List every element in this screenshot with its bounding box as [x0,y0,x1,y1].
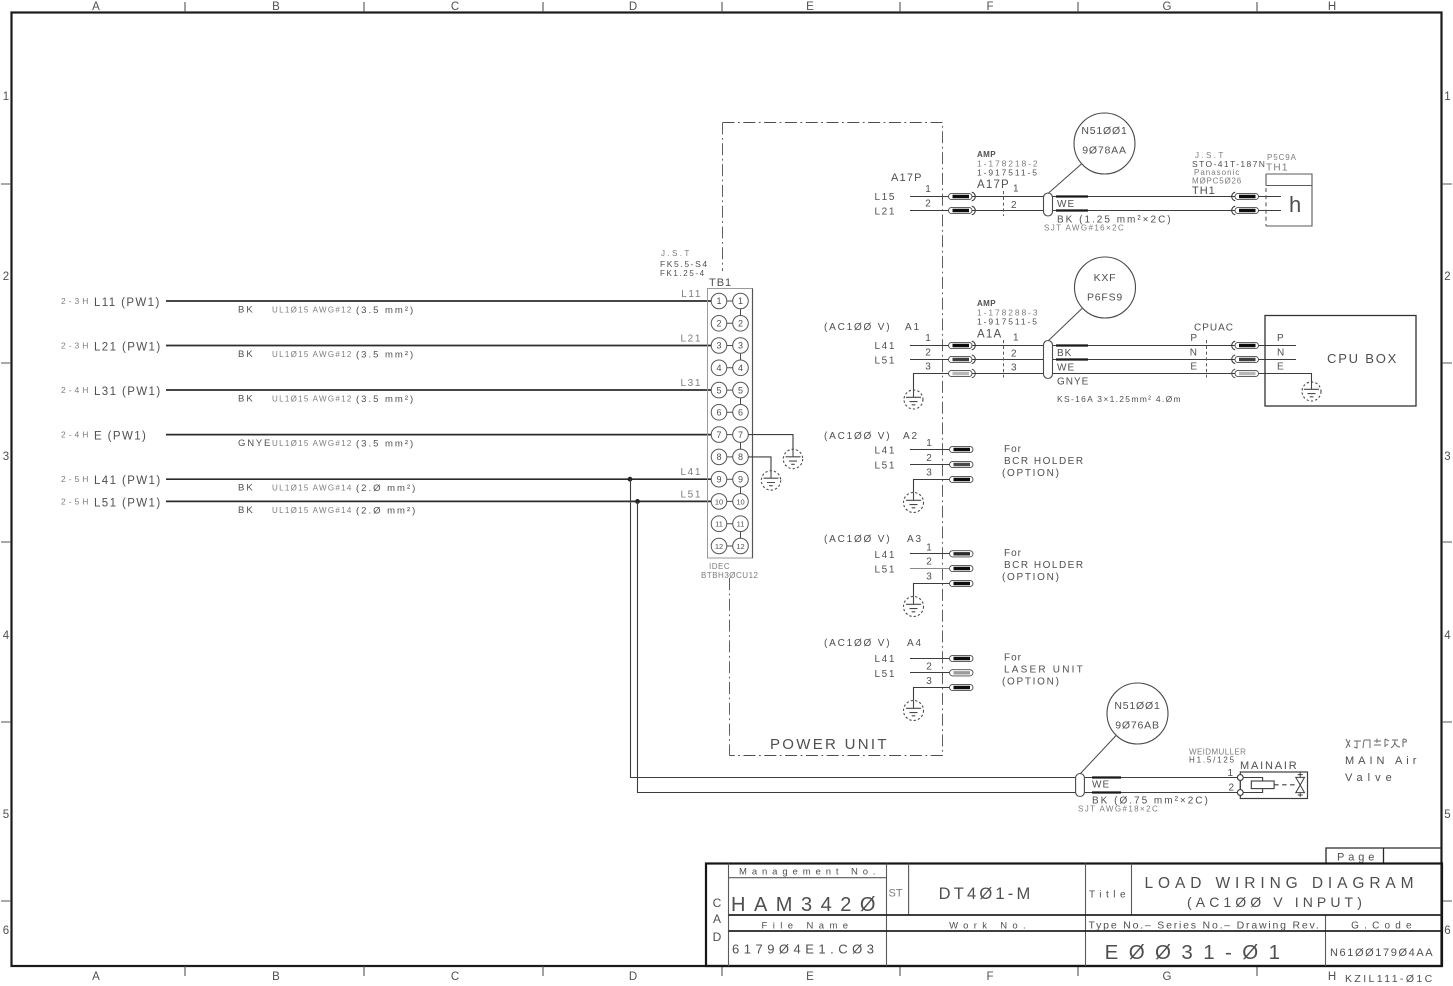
TB1 terminal link wires [727,301,741,546]
svg-text:9Ø76AB: 9Ø76AB [1115,720,1160,732]
svg-text:L41: L41 [875,654,897,665]
valve symbol [1296,772,1305,797]
svg-text:TH1: TH1 [1192,185,1216,197]
svg-text:D: D [629,1,637,13]
svg-text:6: 6 [738,408,743,418]
contact pin CPUAC-N [1232,355,1235,364]
svg-text:6: 6 [3,925,9,937]
svg-text:1: 1 [926,542,932,553]
svg-text:BCR HOLDER: BCR HOLDER [1004,456,1085,467]
junction node on L51 [635,499,640,504]
svg-text:(OPTION): (OPTION) [1002,468,1061,479]
conductor emphasis BK bottom [1092,791,1121,793]
wire L51 [910,464,950,466]
wire L11 feed [166,300,711,302]
cable jacket boundary CPU side [1206,340,1208,378]
svg-text:10: 10 [736,497,744,506]
svg-text:HAM342Ø: HAM342Ø [731,894,884,916]
contact pin A3-3 [950,580,974,586]
svg-text:Management No.: Management No. [739,867,880,878]
svg-text:(2.Ø mm²): (2.Ø mm²) [356,505,417,516]
svg-text:BK: BK [238,349,255,360]
svg-text:L41: L41 [875,446,897,457]
TB1 pin numbers [716,296,743,484]
svg-text:P: P [1277,333,1284,344]
svg-text:8: 8 [738,452,743,462]
conductor emphasis WE [1056,195,1088,197]
svg-text:UL1Ø15 AWG#12: UL1Ø15 AWG#12 [272,439,353,448]
svg-text:L11 (PW1): L11 (PW1) [94,297,161,309]
conductor emphasis BK [1056,344,1088,346]
contact pin CPUAC-E [1232,369,1235,378]
svg-text:H1.5/125: H1.5/125 [1189,756,1236,765]
svg-text:C: C [713,896,722,910]
svg-text:2: 2 [925,347,931,358]
contact pin A3-2 [950,565,974,571]
svg-text:(2.Ø mm²): (2.Ø mm²) [356,483,417,494]
svg-text:5: 5 [3,809,9,821]
svg-text:L41 (PW1): L41 (PW1) [94,475,162,487]
svg-text:3: 3 [716,341,721,351]
svg-text:3: 3 [925,362,931,373]
cable marker oval [1044,193,1053,216]
ground symbol A1 [904,390,923,409]
wire BK to TH1 [972,210,1235,212]
wire L41 [910,658,950,660]
connector A1 group [824,257,1416,409]
svg-text:UL1Ø15 AWG#12: UL1Ø15 AWG#12 [272,395,353,404]
svg-text:L51: L51 [875,460,897,471]
wire BK to CPU [972,345,1235,347]
svg-text:N61ØØ179Ø4AA: N61ØØ179Ø4AA [1330,947,1434,959]
cable jacket boundary [1003,340,1005,378]
svg-text:7: 7 [716,430,721,440]
svg-text:L21 (PW1): L21 (PW1) [94,342,162,354]
svg-text:(OPTION): (OPTION) [1002,572,1061,583]
svg-text:LASER UNIT: LASER UNIT [1004,665,1085,676]
svg-text:TH1: TH1 [1266,163,1289,174]
wire E into CPU BOX [1259,374,1312,383]
Japanese note main air valve [1346,739,1406,749]
svg-text:L31 (PW1): L31 (PW1) [94,386,162,398]
svg-text:L51: L51 [875,669,897,680]
svg-text:2-5H: 2-5H [61,474,91,484]
svg-text:(3.5 mm²): (3.5 mm²) [356,305,415,316]
svg-text:12: 12 [736,542,744,551]
contact pin A17P-1 [949,193,973,199]
svg-text:3: 3 [3,451,9,463]
svg-text:2-4H: 2-4H [61,430,91,440]
svg-text:(3.5 mm²): (3.5 mm²) [356,394,415,405]
svg-text:BK: BK [238,394,255,405]
ground symbol in CPU BOX [1302,382,1321,401]
svg-text:L41: L41 [875,550,897,561]
svg-text:E: E [806,971,814,983]
svg-text:Valve: Valve [1345,772,1397,784]
svg-text:1: 1 [925,184,931,195]
svg-text:Title: Title [1089,890,1130,901]
svg-text:12: 12 [715,542,723,551]
wire L41 branch to MAIN AIR [631,479,1238,777]
main air valve MAINAIR body [1240,772,1307,799]
wire L21 [910,210,949,212]
wire pin3 from ground [914,688,951,701]
svg-text:2: 2 [926,661,932,672]
terminal link [1239,780,1241,789]
CPU BOX [1265,316,1416,407]
svg-text:1-917511-5: 1-917511-5 [977,317,1039,327]
contact pin A3-1 [950,551,974,557]
svg-text:A: A [92,971,100,983]
svg-text:E: E [806,1,814,13]
leader line to balloon KXF [1048,309,1082,342]
wire L21 feed [166,345,711,347]
svg-text:P6FS9: P6FS9 [1087,292,1123,304]
contact pin A4-2 [950,670,974,676]
svg-text:L41: L41 [875,341,897,352]
svg-text:FK1.25-4: FK1.25-4 [660,269,706,278]
svg-text:(AC1ØØ V)A2: (AC1ØØ V)A2 [824,431,919,442]
svg-text:L31: L31 [681,378,703,389]
svg-text:IDEC: IDEC [709,562,730,571]
svg-text:2: 2 [1011,200,1017,211]
svg-text:A17P: A17P [977,179,1010,191]
svg-text:KZIL111-Ø1C: KZIL111-Ø1C [1345,973,1435,985]
svg-text:B: B [272,1,280,13]
Page box [1326,848,1442,864]
svg-text:DT4Ø1-M: DT4Ø1-M [939,885,1034,903]
svg-text:KS-16A 3×1.25mm² 4.Øm: KS-16A 3×1.25mm² 4.Øm [1057,394,1182,404]
svg-text:POWER UNIT: POWER UNIT [770,736,889,753]
wire L51 [910,568,950,570]
balloon N51001 9076AB [1107,683,1168,744]
contact pin CPUAC-P [1232,341,1235,350]
wire TB1 pin7 to ground [748,435,793,450]
svg-text:3: 3 [1011,363,1017,374]
svg-text:(AC1ØØ V)A3: (AC1ØØ V)A3 [824,534,923,545]
svg-text:1: 1 [926,438,932,449]
terminal MAINAIR-2 [1237,790,1243,796]
terminal block TB1 [660,249,759,580]
contact pin A4-3 [950,684,974,690]
svg-text:L51: L51 [875,355,897,366]
wire pin3 from ground [914,374,950,391]
svg-text:4: 4 [716,363,721,373]
svg-text:UL1Ø15 AWG#12: UL1Ø15 AWG#12 [272,306,353,315]
svg-text:11: 11 [737,520,745,529]
svg-text:ST: ST [889,888,903,900]
TB1 terminal circles rows 1-12 [711,293,748,554]
svg-text:6179Ø4E1.CØ3: 6179Ø4E1.CØ3 [732,942,879,957]
svg-text:9Ø78AA: 9Ø78AA [1082,145,1127,157]
terminal MAINAIR-1 [1237,775,1243,781]
svg-text:LOAD WIRING DIAGRAM: LOAD WIRING DIAGRAM [1145,875,1419,892]
contact pin A1A-1 [949,342,973,348]
thermostat TH1 body [1266,174,1312,226]
wire E feed [166,434,711,436]
contact pin A2-3 [950,476,974,482]
svg-text:CPU BOX: CPU BOX [1327,351,1398,366]
svg-text:L11: L11 [681,289,702,300]
wire pin3 from ground [914,480,951,493]
svg-text:G: G [1163,971,1172,983]
svg-text:1: 1 [716,296,721,306]
svg-text:1: 1 [1013,333,1019,344]
svg-text:Page: Page [1337,852,1378,864]
leader line to balloon 9076AB [1080,735,1117,775]
svg-text:MAIN Air: MAIN Air [1345,755,1420,767]
contact pin TH1-1 [1232,192,1235,201]
wire P into CPU BOX [1259,345,1297,347]
svg-text:2: 2 [925,199,931,210]
svg-text:(OPTION): (OPTION) [1002,677,1061,688]
contact pin A2-2 [950,461,974,467]
wire GNYE to CPU [972,373,1235,375]
cable marker oval [1044,341,1053,379]
ground symbol at TB1 pin7 [783,449,802,468]
svg-text:Work No.: Work No. [949,921,1031,932]
svg-text:9: 9 [738,474,743,484]
connector A17P group [875,113,1313,233]
svg-text:For: For [1004,548,1022,559]
svg-text:L51: L51 [875,565,897,576]
svg-text:4: 4 [1444,630,1451,642]
svg-text:SJT AWG#18×2C: SJT AWG#18×2C [1078,805,1159,814]
wire L41 feed [166,478,711,480]
svg-text:G: G [1163,1,1172,13]
contact pin A2-1 [950,446,974,452]
svg-text:UL1Ø15 AWG#14: UL1Ø15 AWG#14 [272,506,353,515]
svg-text:For: For [1004,653,1022,664]
svg-text:L15: L15 [875,192,897,203]
svg-text:10: 10 [715,497,723,506]
svg-text:L41: L41 [681,467,703,478]
svg-text:KXF: KXF [1094,272,1117,284]
cable marker oval bottom [1076,774,1085,797]
wire WE to TH1 [972,196,1235,198]
svg-text:7: 7 [738,430,743,440]
svg-text:MAINAIR: MAINAIR [1240,760,1298,772]
svg-text:G.Code: G.Code [1351,921,1417,932]
svg-text:5: 5 [1444,809,1450,821]
ground symbol A2 [904,492,924,512]
wire N into CPU BOX [1259,359,1297,361]
svg-text:E: E [1190,362,1197,373]
svg-text:6: 6 [716,408,721,418]
wire L41 [910,345,949,347]
ground symbol at TB1 pin8 [761,471,780,490]
svg-text:(3.5 mm²): (3.5 mm²) [356,439,415,450]
wire L41 [910,449,950,451]
svg-text:SJT AWG#16×2C: SJT AWG#16×2C [1044,224,1125,233]
svg-text:BK: BK [238,305,255,316]
wire into TH1 pin2 [1259,210,1282,212]
svg-text:h: h [1289,192,1301,217]
svg-text:2: 2 [1444,271,1450,283]
svg-text:(AC1ØØ V)A1: (AC1ØØ V)A1 [824,322,921,333]
wire L41 [910,553,950,555]
wire L51 [910,672,950,674]
svg-text:BK: BK [1057,348,1072,359]
svg-text:BK: BK [238,505,255,516]
solenoid coil symbol [1243,778,1274,793]
title block inner lines [729,864,1326,967]
svg-text:UL1Ø15 AWG#14: UL1Ø15 AWG#14 [272,484,353,493]
svg-text:2: 2 [926,557,932,568]
wire L51 branch to MAIN AIR [638,501,1238,792]
svg-text:6: 6 [1444,925,1450,937]
svg-text:1-917511-5: 1-917511-5 [977,168,1039,178]
svg-text:BTBH3ØCU12: BTBH3ØCU12 [701,571,759,580]
balloon N51001 9078AA [1074,113,1135,174]
svg-text:P: P [1190,333,1197,344]
ground symbol A4 [904,700,924,720]
svg-text:1: 1 [1227,768,1233,779]
svg-text:(3.5 mm²): (3.5 mm²) [356,350,415,361]
svg-text:2-3H: 2-3H [61,296,91,306]
wire L51 feed [166,500,711,502]
svg-text:B: B [272,971,280,983]
svg-text:WE: WE [1057,363,1075,374]
svg-text:11: 11 [715,520,723,529]
svg-text:(AC1ØØ V INPUT): (AC1ØØ V INPUT) [1187,894,1366,910]
svg-text:8: 8 [716,452,721,462]
leader line to balloon [1048,164,1082,194]
wire pin3 from ground [914,584,951,597]
svg-text:J.S.T: J.S.T [661,249,692,258]
svg-text:WE: WE [1057,199,1075,210]
svg-text:A1A: A1A [977,329,1002,341]
svg-text:3: 3 [926,572,932,583]
svg-text:File Name: File Name [762,921,854,932]
connector A3 group [824,534,1085,617]
svg-text:2-3H: 2-3H [61,341,91,351]
svg-text:1: 1 [925,333,931,344]
svg-text:BK: BK [238,483,255,494]
svg-text:4: 4 [3,630,10,642]
svg-text:L21: L21 [681,334,703,345]
conductor emphasis WE [1056,358,1088,360]
svg-text:1: 1 [738,296,743,306]
svg-text:GNYE: GNYE [238,438,272,449]
wire L51 [910,359,949,361]
svg-text:N51ØØ1: N51ØØ1 [1081,125,1127,137]
svg-text:E: E [1277,362,1284,373]
svg-text:BCR HOLDER: BCR HOLDER [1004,560,1085,571]
svg-text:H: H [1328,971,1336,983]
svg-text:2: 2 [1228,783,1234,794]
wire L15 [910,196,949,198]
svg-text:C: C [451,971,459,983]
svg-text:5: 5 [738,385,743,395]
svg-text:For: For [1004,444,1022,455]
svg-text:N: N [1190,347,1197,358]
contact pin A4-1 [950,655,974,661]
svg-text:E (PW1): E (PW1) [94,431,147,443]
svg-text:9: 9 [716,474,721,484]
connector A4 group [824,638,1085,721]
svg-text:GNYE: GNYE [1057,377,1089,388]
TB1 body [708,289,753,559]
conductor emphasis BK [1056,209,1088,211]
contact pin A1A-3 (GNYE) [949,370,973,376]
svg-text:3: 3 [926,676,932,687]
svg-text:4: 4 [738,363,743,373]
svg-text:CPUAC: CPUAC [1194,323,1234,334]
actuator dashed link [1274,784,1296,786]
contact pin A17P-2 [949,207,973,213]
svg-text:3: 3 [1444,451,1450,463]
svg-text:EØØ31-Ø1: EØØ31-Ø1 [1105,941,1291,964]
cable jacket boundary [1003,191,1005,216]
svg-text:3: 3 [738,341,743,351]
contact pin A1A-2 [949,356,973,362]
wire TB1 pin8 to ground [748,457,771,471]
svg-text:2: 2 [3,271,9,283]
svg-text:P5C9A: P5C9A [1267,153,1297,162]
svg-text:FK5.5-S4: FK5.5-S4 [660,259,709,269]
svg-text:2: 2 [926,453,932,464]
junction node on L41 [628,477,633,482]
connector A2 group [824,431,1085,513]
svg-text:WE: WE [1092,780,1110,791]
svg-text:2: 2 [738,319,743,329]
ground symbol A3 [904,596,924,616]
svg-text:F: F [986,1,993,13]
wire WE to CPU [972,359,1235,361]
svg-text:3: 3 [926,468,932,479]
svg-text:A: A [92,1,100,13]
conductor emphasis WE bottom [1092,776,1121,778]
svg-text:1: 1 [3,91,9,103]
svg-text:UL1Ø15 AWG#12: UL1Ø15 AWG#12 [272,350,353,359]
svg-text:L51: L51 [681,489,703,500]
svg-text:1: 1 [1444,91,1450,103]
svg-text:2: 2 [716,319,721,329]
svg-text:N: N [1277,347,1284,358]
svg-text:A17P: A17P [891,172,923,184]
power unit enclosure boundary (dash-dot box) [723,123,943,756]
svg-text:2: 2 [1011,348,1017,359]
svg-text:D: D [713,930,722,944]
svg-text:L51 (PW1): L51 (PW1) [94,497,162,509]
title block outer frame [706,864,1442,967]
svg-text:1: 1 [1013,184,1019,195]
svg-text:D: D [629,971,637,983]
svg-text:A: A [713,912,721,926]
svg-text:F: F [986,971,993,983]
svg-text:N51ØØ1: N51ØØ1 [1114,700,1160,712]
svg-text:2-5H: 2-5H [61,496,91,506]
svg-text:2-4H: 2-4H [61,385,91,395]
svg-text:L21: L21 [875,207,897,218]
balloon KXF P6FS9 [1075,257,1136,318]
contact pin TH1-2 [1232,206,1235,215]
wire L31 feed [166,389,711,391]
svg-text:C: C [451,1,459,13]
wire into TH1 pin1 [1259,196,1282,198]
svg-text:TB1: TB1 [709,277,732,289]
svg-text:5: 5 [716,385,721,395]
svg-text:Type No.– Series No.– Drawing: Type No.– Series No.– Drawing Rev. [1089,920,1321,932]
svg-text:(AC1ØØ V)A4: (AC1ØØ V)A4 [824,638,923,649]
svg-text:H: H [1328,1,1336,13]
